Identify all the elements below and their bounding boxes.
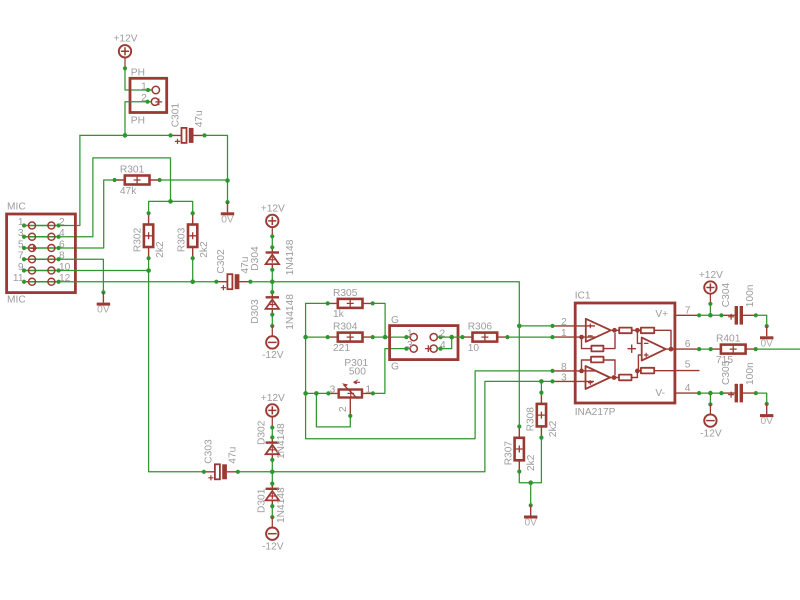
svg-text:R302: R302 <box>133 227 144 252</box>
svg-text:2: 2 <box>59 217 65 228</box>
capacitor C305 <box>719 360 758 402</box>
svg-text:11: 11 <box>13 273 24 284</box>
wire R301 right <box>160 179 228 181</box>
svg-text:0V: 0V <box>524 518 537 529</box>
junction <box>270 279 275 284</box>
resistor R306 <box>460 322 509 354</box>
svg-text:R303: R303 <box>177 227 188 252</box>
wire G pin2 to R306 <box>441 336 463 338</box>
wire G pin4 riser <box>441 337 452 349</box>
junction <box>449 335 454 340</box>
resistor R401 <box>709 334 758 366</box>
node +12V pin end <box>123 66 127 70</box>
wire D304 anode <box>271 270 273 282</box>
wire <box>271 326 273 336</box>
supply +12V <box>261 203 285 227</box>
wire R302 R303 tops <box>149 201 193 215</box>
diode D304 <box>250 239 296 275</box>
svg-text:MIC: MIC <box>7 295 26 306</box>
svg-text:47u: 47u <box>194 110 205 127</box>
wire <box>271 228 273 237</box>
svg-text:5: 5 <box>685 360 691 371</box>
svg-text:1N4148: 1N4148 <box>276 423 287 459</box>
svg-text:7: 7 <box>685 306 691 317</box>
svg-text:G: G <box>391 362 399 373</box>
svg-text:+12V: +12V <box>113 34 137 45</box>
svg-text:0V: 0V <box>760 416 773 427</box>
svg-text:8: 8 <box>561 362 567 373</box>
svg-text:1N4148: 1N4148 <box>285 294 296 330</box>
wire C305 to 0V <box>756 393 767 404</box>
junction <box>190 279 195 284</box>
svg-text:R304: R304 <box>333 322 358 333</box>
svg-text:MIC: MIC <box>7 202 26 213</box>
svg-text:D301: D301 <box>256 488 267 513</box>
svg-text:PH: PH <box>131 67 145 78</box>
svg-text:6: 6 <box>59 239 65 250</box>
wire IC pin7 <box>699 314 721 316</box>
node pin end <box>708 402 712 406</box>
svg-text:2k2: 2k2 <box>155 241 166 258</box>
svg-text:4: 4 <box>685 383 691 394</box>
svg-text:0V: 0V <box>221 214 234 225</box>
capacitor C303 <box>202 439 240 480</box>
wire D301 cathode <box>271 472 273 484</box>
svg-text:+12V: +12V <box>261 393 285 404</box>
svg-text:1: 1 <box>141 81 147 92</box>
svg-text:D304: D304 <box>250 246 261 271</box>
svg-text:3: 3 <box>330 384 336 395</box>
svg-text:2k2: 2k2 <box>199 241 210 258</box>
junction <box>225 178 230 183</box>
node pin end <box>270 515 274 519</box>
svg-text:1: 1 <box>407 328 413 339</box>
capacitor C304 <box>719 283 758 325</box>
svg-text:3: 3 <box>561 373 567 384</box>
wire <box>271 517 273 527</box>
wire to IC pin 2 <box>519 325 552 327</box>
diode D303 <box>250 290 296 330</box>
wire <box>271 417 273 428</box>
svg-text:PH: PH <box>131 116 145 127</box>
svg-text:C305: C305 <box>721 360 732 385</box>
junction <box>708 313 713 318</box>
svg-text:R305: R305 <box>333 288 358 299</box>
svg-text:0V: 0V <box>760 338 773 349</box>
junction <box>314 391 319 396</box>
svg-text:8: 8 <box>59 251 65 262</box>
wire R305 right <box>373 303 385 337</box>
wire bus to IC pin8 <box>306 371 553 439</box>
wire MIC pin10 to R302 <box>59 270 149 272</box>
svg-text:10: 10 <box>468 343 480 354</box>
wire gain bus <box>305 303 307 393</box>
svg-text:47k: 47k <box>120 186 137 197</box>
wire R305 left <box>306 302 329 304</box>
supply +12V <box>113 34 137 58</box>
wire pot wiper loop <box>316 393 350 427</box>
svg-text:12: 12 <box>59 273 71 284</box>
wire pot pin1 to G pin3 <box>373 349 407 394</box>
svg-text:G: G <box>391 315 399 326</box>
jumper block G <box>390 315 458 373</box>
svg-text:10: 10 <box>59 262 71 273</box>
svg-text:5: 5 <box>18 239 24 250</box>
capacitor C301 <box>168 103 206 144</box>
wire IC pin4 <box>699 392 721 394</box>
supply +12V <box>699 270 723 294</box>
wire output <box>756 348 800 350</box>
svg-text:V+: V+ <box>655 309 668 320</box>
connector PH <box>130 67 167 126</box>
svg-text:-12V: -12V <box>700 428 722 439</box>
junction <box>303 335 308 340</box>
svg-text:221: 221 <box>333 343 350 354</box>
resistor R308 <box>525 391 559 440</box>
wire D301 to -12V <box>271 506 273 517</box>
wire R306 to IC pin1 <box>507 336 552 338</box>
diode D301 <box>256 482 287 524</box>
junction <box>303 391 308 396</box>
svg-text:C304: C304 <box>721 283 732 308</box>
wire R304 left <box>306 336 329 338</box>
wire C303 to IC pin3 <box>238 381 553 471</box>
wire C302 to pin2 and R307 <box>250 282 519 427</box>
svg-text:R306: R306 <box>468 322 493 333</box>
op-amp U1 internal circuit <box>575 319 675 389</box>
wire MIC pin6 to R301 <box>59 180 115 248</box>
connector MIC <box>7 202 76 306</box>
wire R308 top <box>540 381 542 392</box>
svg-text:D302: D302 <box>256 420 267 445</box>
wire R303 bottom <box>192 260 194 282</box>
wire MIC pin8 to 0V <box>59 259 104 292</box>
junction <box>123 133 128 138</box>
junction <box>383 335 388 340</box>
svg-text:INA217P: INA217P <box>575 407 616 418</box>
junction <box>517 324 522 329</box>
wire R304 to G pin1 <box>373 336 407 338</box>
svg-text:4: 4 <box>59 228 65 239</box>
svg-text:2k2: 2k2 <box>526 454 537 471</box>
wire bus to pot <box>306 392 329 394</box>
junction <box>528 480 533 485</box>
wire PH pin2 down <box>125 102 148 136</box>
node pin end <box>270 324 274 328</box>
svg-text:2: 2 <box>141 93 147 104</box>
wire <box>709 404 711 414</box>
ground 0V under C301 <box>221 200 234 225</box>
svg-text:2: 2 <box>338 406 349 412</box>
wire D303 to -12V <box>271 315 273 326</box>
resistor R305 <box>326 288 375 320</box>
wire <box>709 294 711 304</box>
svg-text:100n: 100n <box>745 285 756 308</box>
svg-text:C301: C301 <box>170 103 181 128</box>
node pin end <box>270 425 274 429</box>
ground 0V under R307 R308 <box>524 503 537 528</box>
wire to 0V <box>530 483 532 506</box>
svg-text:7: 7 <box>18 251 24 262</box>
svg-text:1: 1 <box>366 384 372 395</box>
svg-text:IC1: IC1 <box>575 290 591 301</box>
svg-text:R307: R307 <box>503 441 514 466</box>
resistor R301 <box>113 165 162 197</box>
svg-text:R401: R401 <box>716 334 741 345</box>
svg-text:1N4148: 1N4148 <box>285 239 296 275</box>
svg-text:47u: 47u <box>228 447 239 464</box>
ground 0V under C304 <box>760 324 773 349</box>
wire +12V to PH pin1 <box>124 58 126 68</box>
svg-text:9: 9 <box>18 262 24 273</box>
svg-text:D303: D303 <box>250 299 261 324</box>
svg-text:+12V: +12V <box>699 270 723 281</box>
ground 0V under MIC <box>97 290 110 315</box>
wire pin4 to -12V <box>709 393 711 404</box>
wire IC pin6 <box>699 348 711 350</box>
svg-text:3: 3 <box>407 340 413 351</box>
wire MIC pin2 up <box>59 135 80 225</box>
diode D302 <box>256 420 287 462</box>
capacitor C302 <box>214 249 252 290</box>
potentiometer P301 <box>326 358 375 418</box>
svg-text:-12V: -12V <box>262 542 284 553</box>
wire supply to D304 <box>271 236 273 247</box>
wire MIC pin12 to C302 <box>59 281 217 283</box>
wire C301 to 0V <box>205 135 228 202</box>
node pin end <box>270 234 274 238</box>
wire D302 anode <box>271 460 273 472</box>
node pin end <box>708 302 712 306</box>
junction <box>168 199 173 204</box>
svg-text:2k2: 2k2 <box>548 420 559 437</box>
resistor R302 <box>133 211 167 260</box>
svg-text:C302: C302 <box>216 249 227 274</box>
wire phantom rail <box>80 134 171 136</box>
supply -12V <box>262 336 284 361</box>
junction <box>539 379 544 384</box>
wire <box>125 68 148 90</box>
svg-text:-12V: -12V <box>262 350 284 361</box>
svg-text:6: 6 <box>685 339 691 350</box>
resistor R303 <box>177 211 211 260</box>
wire R307 bottom <box>519 472 530 483</box>
resistor R304 <box>326 322 375 354</box>
wire R302 bottom down <box>149 260 204 472</box>
svg-text:R301: R301 <box>120 165 145 176</box>
svg-text:C303: C303 <box>204 439 215 464</box>
svg-text:1N4148: 1N4148 <box>276 487 287 523</box>
svg-text:3: 3 <box>18 228 24 239</box>
supply +12V <box>261 393 285 417</box>
junction <box>708 391 713 396</box>
svg-text:100n: 100n <box>745 362 756 385</box>
svg-text:+12V: +12V <box>261 203 285 214</box>
supply -12V <box>262 528 284 553</box>
wire D303 cathode <box>271 282 273 292</box>
svg-text:2: 2 <box>561 317 567 328</box>
wire +12V to pin7 <box>709 304 711 316</box>
svg-text:500: 500 <box>349 367 366 378</box>
svg-text:1: 1 <box>561 328 567 339</box>
junction <box>270 470 275 475</box>
junction <box>146 268 151 273</box>
svg-text:V-: V- <box>655 388 665 399</box>
wire supply to D302 <box>271 428 273 438</box>
svg-text:R308: R308 <box>525 407 536 432</box>
svg-text:0V: 0V <box>97 305 110 316</box>
supply -12V <box>700 414 722 439</box>
resistor R307 <box>503 424 537 473</box>
svg-text:1: 1 <box>18 217 24 228</box>
wire C304 to 0V <box>756 315 767 326</box>
wire MIC pin4 up <box>59 158 171 237</box>
op-amp U1 IC1 INA217P body <box>550 290 701 418</box>
svg-text:1k: 1k <box>333 309 345 320</box>
wire R308 bottom <box>531 438 542 483</box>
ground 0V under C305 <box>760 402 773 427</box>
